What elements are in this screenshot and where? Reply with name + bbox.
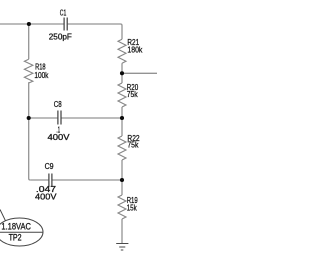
svg-text:75k: 75k	[127, 141, 139, 150]
svg-text:C9: C9	[45, 162, 54, 171]
svg-text:C8: C8	[54, 100, 62, 109]
svg-text:400V: 400V	[48, 133, 71, 142]
svg-text:100k: 100k	[34, 71, 49, 80]
svg-text:1.18VAC: 1.18VAC	[1, 221, 31, 231]
svg-text:400V: 400V	[35, 193, 57, 202]
svg-text:TP2: TP2	[9, 232, 22, 242]
svg-text:15k: 15k	[127, 203, 138, 212]
svg-text:180k: 180k	[127, 45, 143, 54]
svg-text:75k: 75k	[127, 90, 139, 99]
svg-text:250pF: 250pF	[49, 32, 72, 41]
svg-text:C1: C1	[60, 9, 67, 18]
